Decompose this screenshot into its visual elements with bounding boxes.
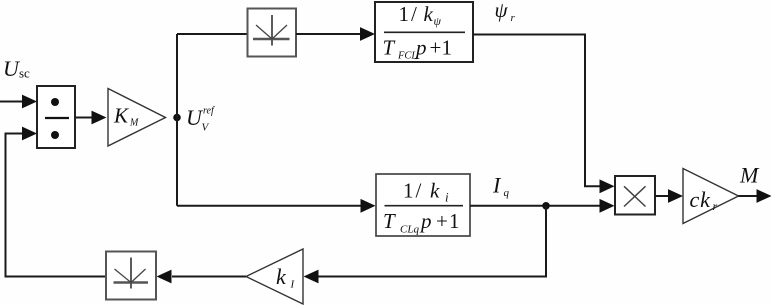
svg-text:M: M <box>129 118 139 129</box>
svg-text:/: / <box>416 179 422 203</box>
transfer function block 1: 1/k_psi over T_FCL p + 1 <box>375 2 473 62</box>
limiter block 1 <box>248 9 297 57</box>
label U_V^ref <box>186 105 215 134</box>
wire: I_q node down then left into k_I amplifier <box>304 206 547 284</box>
wire: node vertical branch <box>176 34 178 206</box>
transfer function block 2: 1/k_i over T_CLq p + 1 <box>376 174 470 236</box>
svg-text:+: + <box>430 36 442 60</box>
wire: limiter1 to TF1 <box>296 27 375 41</box>
svg-text:K: K <box>113 104 129 128</box>
svg-text:T: T <box>383 209 396 233</box>
amplifier ck_r <box>683 169 739 224</box>
wire: output arrow M <box>739 189 772 203</box>
svg-text:1: 1 <box>399 2 410 26</box>
divider block <box>37 86 75 148</box>
svg-text:ck: ck <box>690 187 712 212</box>
wire: node down branch into TF2 <box>177 199 376 213</box>
wire: k_I output into limiter2 <box>157 270 247 284</box>
svg-text:FCL: FCL <box>397 51 417 62</box>
svg-text:sc: sc <box>19 66 30 81</box>
wire: TF2 output to multiplier bottom input <box>470 199 615 213</box>
multiplier block <box>615 176 655 215</box>
svg-text:1: 1 <box>442 36 453 60</box>
svg-text:i: i <box>445 190 449 205</box>
wire: TF1 output right then down to multiplier top input <box>473 35 615 194</box>
svg-text:1: 1 <box>403 179 414 203</box>
svg-text:r: r <box>511 12 516 24</box>
svg-text:CLq: CLq <box>400 224 419 236</box>
wire: top branch into limiter1 <box>177 33 248 35</box>
node U_V^ref <box>173 114 181 122</box>
amplifier k_I <box>246 249 303 304</box>
label M <box>739 163 760 188</box>
label I_q <box>492 173 510 200</box>
svg-text:p: p <box>419 209 432 233</box>
limiter block 2 <box>106 252 156 300</box>
svg-text:/: / <box>411 2 417 26</box>
svg-text:k: k <box>424 2 434 26</box>
svg-text:+: + <box>436 209 448 233</box>
svg-text:r: r <box>713 199 718 213</box>
wire: multiplier output to ck_r amplifier <box>655 189 683 203</box>
label U_sc <box>3 56 30 81</box>
svg-text:T: T <box>383 36 396 60</box>
wire: divider to K_M amplifier <box>75 111 107 125</box>
label psi_r <box>495 0 516 24</box>
svg-text:ψ: ψ <box>495 0 509 22</box>
svg-text:M: M <box>739 163 760 188</box>
svg-text:k: k <box>276 264 287 289</box>
node I_q junction <box>542 202 550 210</box>
svg-text:q: q <box>504 187 510 199</box>
svg-text:p: p <box>414 36 427 60</box>
svg-text:k: k <box>430 179 440 203</box>
svg-text:1: 1 <box>449 209 460 233</box>
svg-text:ψ: ψ <box>434 14 442 28</box>
wire: top input into divider <box>0 95 37 109</box>
amplifier K_M <box>108 89 166 147</box>
svg-text:ref: ref <box>203 106 215 117</box>
wire: feedback from limiter2 to divider lower input <box>6 127 107 277</box>
